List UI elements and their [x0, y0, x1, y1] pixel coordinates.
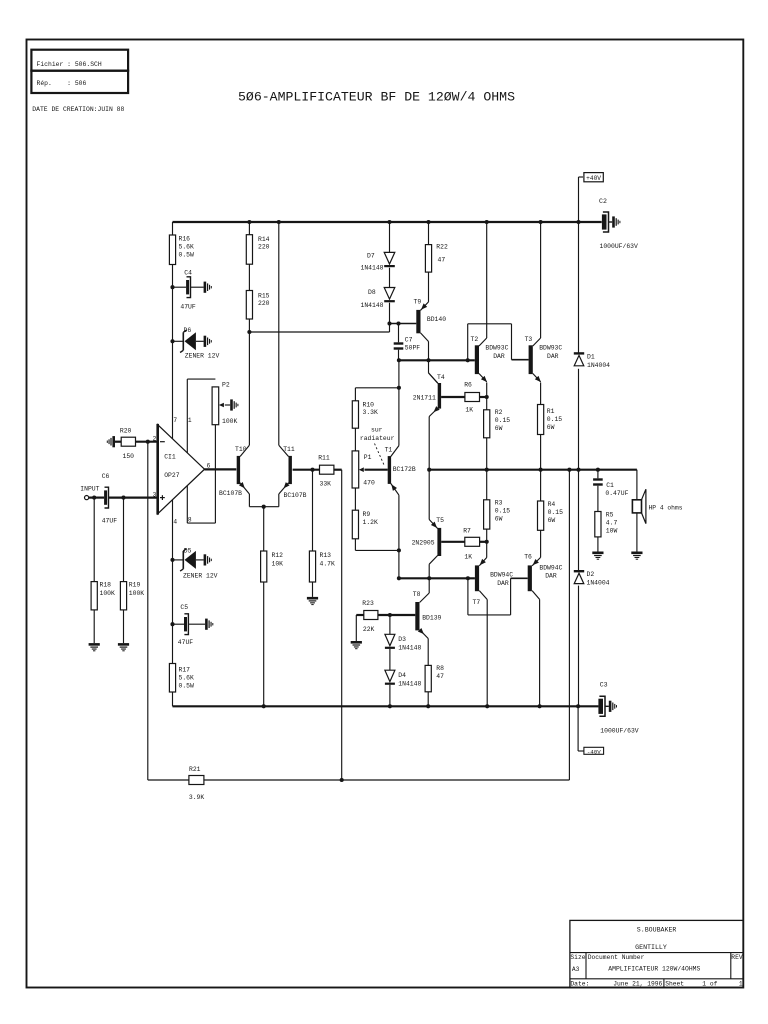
- wire T7 collector to rail: [486, 600, 488, 707]
- svg-text:0.5W: 0.5W: [179, 683, 195, 690]
- resistor R13: [312, 470, 314, 551]
- resistor R7: [465, 537, 480, 546]
- svg-text:50PF: 50PF: [405, 345, 421, 352]
- svg-text:47UF: 47UF: [102, 517, 118, 524]
- svg-text:1000UF/63V: 1000UF/63V: [600, 243, 639, 250]
- svg-text:BDW94C: BDW94C: [490, 572, 513, 579]
- wire P1 wiper to T1 base: [365, 469, 388, 471]
- resistor R10: [352, 401, 358, 428]
- svg-text:1N4148: 1N4148: [361, 302, 384, 309]
- svg-text:5Ø6-AMPLIFICATEUR BF DE 12ØW/4: 5Ø6-AMPLIFICATEUR BF DE 12ØW/4 OHMS: [238, 89, 515, 104]
- svg-text:R13: R13: [320, 552, 332, 559]
- svg-text:BD139: BD139: [422, 614, 441, 621]
- svg-text:R3: R3: [495, 500, 503, 507]
- diode D8: [384, 288, 395, 300]
- capacitor C6: [89, 497, 104, 499]
- zener D6: [170, 339, 174, 343]
- svg-text:T9: T9: [414, 299, 422, 306]
- diode D7: [384, 252, 395, 264]
- svg-text:C7: C7: [405, 337, 413, 344]
- svg-text:R15: R15: [258, 293, 270, 300]
- wire op-amp out to T10 base: [205, 468, 237, 470]
- svg-text:Rép. : 506: Rép. : 506: [37, 80, 87, 87]
- svg-text:0.47UF: 0.47UF: [605, 490, 628, 497]
- svg-text:100K: 100K: [129, 590, 145, 597]
- resistor R2: [484, 410, 490, 438]
- svg-text:10K: 10K: [272, 561, 284, 568]
- svg-text:Fichier : 506.SCH: Fichier : 506.SCH: [37, 61, 102, 68]
- junction dots bottom rail: [262, 704, 266, 708]
- svg-text:6W: 6W: [495, 425, 503, 432]
- svg-text:R5: R5: [606, 512, 614, 519]
- svg-text:7: 7: [173, 417, 177, 424]
- wire T5 collector down: [428, 564, 430, 593]
- svg-text:R21: R21: [189, 766, 201, 773]
- svg-text:INPUT: INPUT: [80, 486, 99, 493]
- svg-text:3.3K: 3.3K: [363, 409, 379, 416]
- svg-text:4: 4: [173, 519, 177, 526]
- wire T6 T7 base jog: [467, 578, 469, 615]
- svg-text:T10: T10: [235, 446, 247, 453]
- wire bias bottom: [354, 539, 356, 551]
- svg-text:AMPLIFICATEUR 120W/4OHMS: AMPLIFICATEUR 120W/4OHMS: [608, 965, 700, 972]
- svg-text:D7: D7: [367, 253, 375, 260]
- resistor R3: [486, 470, 488, 500]
- wire link to D8 node: [249, 331, 389, 333]
- wire T2 T3 base jog: [467, 324, 469, 361]
- svg-text:1N4004: 1N4004: [587, 579, 610, 586]
- wire T11 base to R11: [293, 469, 320, 471]
- svg-text:ZENER 12V: ZENER 12V: [185, 352, 220, 359]
- svg-text:June 21, 1996: June 21, 1996: [613, 980, 662, 987]
- svg-text:100K: 100K: [222, 418, 238, 425]
- transistor T8 BD139: [415, 602, 419, 630]
- svg-text:T2: T2: [471, 336, 479, 343]
- wire T9 collector to T4 collector: [428, 342, 430, 373]
- wire R14 to R15: [248, 264, 250, 291]
- svg-text:T8: T8: [413, 591, 421, 598]
- svg-text:BC107B: BC107B: [219, 490, 242, 497]
- svg-text:T3: T3: [525, 336, 533, 343]
- transistor T10 BC107B: [237, 456, 240, 484]
- svg-text:D5: D5: [184, 547, 192, 554]
- transistor T6 BDW94C: [528, 565, 532, 591]
- svg-text:D4: D4: [398, 672, 406, 679]
- svg-text:C4: C4: [184, 270, 192, 277]
- -40V flag: [578, 750, 584, 752]
- svg-text:CI1: CI1: [164, 454, 176, 461]
- svg-text:22K: 22K: [363, 626, 375, 633]
- zener D5: [170, 558, 174, 562]
- svg-text:33K: 33K: [320, 481, 332, 488]
- svg-text:T11: T11: [283, 446, 295, 453]
- svg-text:1K: 1K: [465, 407, 473, 414]
- transistor T2 BDW93C: [475, 345, 479, 374]
- wire T5 base to R7: [441, 541, 465, 543]
- svg-text:D2: D2: [587, 571, 595, 578]
- svg-text:R2: R2: [495, 409, 503, 416]
- wire T6 collector to rail: [539, 599, 541, 706]
- svg-text:DAR: DAR: [547, 353, 559, 360]
- svg-text:DAR: DAR: [497, 580, 509, 587]
- svg-text:4.7K: 4.7K: [320, 561, 336, 568]
- wire +40V column to D1 and output: [578, 177, 580, 222]
- svg-text:150: 150: [123, 453, 135, 460]
- svg-text:D6: D6: [184, 327, 192, 334]
- wire T7 emitter to R3: [486, 542, 488, 558]
- svg-text:0.15: 0.15: [495, 417, 511, 424]
- wire R15 to T10 collector: [248, 319, 250, 445]
- VAS drive line lower: [399, 577, 475, 579]
- svg-text:S.BOUBAKER: S.BOUBAKER: [637, 927, 677, 934]
- resistor R12: [263, 507, 265, 551]
- svg-text:T5: T5: [436, 517, 444, 524]
- transistor T7 BDW94C: [475, 565, 479, 591]
- svg-text:REV: REV: [731, 954, 743, 961]
- svg-text:47: 47: [438, 257, 446, 264]
- svg-text:Sheet: Sheet: [665, 980, 684, 987]
- potentiometer P1: [352, 451, 359, 488]
- svg-text:0.15: 0.15: [547, 416, 563, 423]
- svg-text:470: 470: [363, 480, 375, 487]
- capacitor C7: [398, 324, 400, 343]
- resistor R1: [538, 405, 544, 435]
- transistor T9 BD140: [416, 310, 420, 333]
- wire T2 emitter to R2: [486, 383, 488, 410]
- title block: [570, 920, 743, 987]
- transistor T3 BDW93C: [529, 345, 533, 374]
- diode D3: [389, 615, 391, 634]
- svg-text:R1: R1: [547, 408, 555, 415]
- wire R11 down to feedback: [341, 470, 343, 780]
- capacitor C1: [597, 470, 599, 479]
- resistor R5: [595, 512, 601, 537]
- op-amp CI1 OP27: [158, 425, 205, 514]
- header box Fichier: [31, 50, 128, 71]
- svg-text:OP27: OP27: [164, 472, 180, 479]
- resistor R14: [247, 220, 251, 224]
- diode D4: [389, 649, 391, 670]
- svg-text:10W: 10W: [606, 528, 618, 535]
- speaker HP 4 ohms: [636, 470, 638, 500]
- svg-text:D1: D1: [587, 354, 595, 361]
- svg-text:0.15: 0.15: [548, 509, 564, 516]
- svg-text:1K: 1K: [464, 553, 472, 560]
- svg-text:C1: C1: [606, 482, 614, 489]
- transistor T4 2N1711: [438, 383, 441, 409]
- svg-text:4.7: 4.7: [606, 520, 618, 527]
- resistor R11: [320, 465, 334, 474]
- header box Rep: [31, 71, 128, 93]
- svg-text:1: 1: [188, 417, 192, 424]
- resistor R8: [427, 639, 429, 666]
- svg-text:BDW94C: BDW94C: [539, 564, 562, 571]
- svg-text:R9: R9: [363, 511, 371, 518]
- wire P1 to R9: [354, 488, 356, 510]
- svg-text:C6: C6: [102, 473, 110, 480]
- emitter join wire: [249, 506, 278, 508]
- svg-text:5.6K: 5.6K: [179, 675, 195, 682]
- wire R22 to T9 emitter: [428, 272, 430, 302]
- svg-text:1: 1: [739, 980, 743, 987]
- svg-text:6W: 6W: [495, 516, 503, 523]
- wire bias top: [354, 388, 356, 401]
- wire R10 to P1: [354, 428, 356, 451]
- svg-text:D8: D8: [368, 289, 376, 296]
- wire T1 collector up: [398, 360, 400, 445]
- svg-text:3.9K: 3.9K: [189, 794, 205, 801]
- svg-text:1.2K: 1.2K: [363, 519, 379, 526]
- svg-text:6W: 6W: [547, 424, 555, 431]
- svg-text:0.5W: 0.5W: [179, 252, 195, 259]
- svg-text:5.6K: 5.6K: [179, 244, 195, 251]
- wire T1 emitter down: [398, 495, 400, 578]
- svg-text:100K: 100K: [100, 590, 116, 597]
- svg-text:R16: R16: [179, 236, 191, 243]
- svg-text:R8: R8: [436, 665, 444, 672]
- svg-text:R22: R22: [436, 244, 448, 251]
- svg-text:47UF: 47UF: [180, 304, 196, 311]
- +40V flag: [579, 176, 584, 178]
- transistor T1 BC172B: [388, 456, 391, 484]
- wire R16 to C4 node: [172, 265, 174, 342]
- svg-text:1N4148: 1N4148: [361, 264, 384, 271]
- svg-text:Date:: Date:: [570, 980, 589, 987]
- wire T2 collector to rail: [485, 220, 489, 224]
- svg-text:R10: R10: [363, 402, 375, 409]
- svg-text:T1: T1: [385, 447, 393, 454]
- resistor R4: [540, 470, 542, 501]
- svg-text:R11: R11: [318, 454, 330, 461]
- svg-text:A3: A3: [572, 966, 580, 973]
- svg-text:P2: P2: [222, 382, 230, 389]
- wire T3 emitter to R1: [540, 383, 542, 405]
- svg-text:BD140: BD140: [427, 316, 446, 323]
- feedback wire to output: [568, 470, 570, 780]
- svg-text:T7: T7: [473, 599, 481, 606]
- svg-text:+40V: +40V: [586, 175, 601, 182]
- svg-text:BDW93C: BDW93C: [485, 345, 508, 352]
- svg-text:T4: T4: [437, 374, 445, 381]
- wire D4 to rail: [389, 685, 391, 707]
- svg-text:BDW93C: BDW93C: [539, 345, 562, 352]
- wire T11 collector to rail: [277, 220, 281, 224]
- svg-text:DAR: DAR: [545, 573, 557, 580]
- svg-text:2N2905: 2N2905: [412, 539, 435, 546]
- svg-text:DAR: DAR: [493, 353, 505, 360]
- svg-text:Size: Size: [570, 954, 585, 961]
- wire T3 collector to rail: [539, 220, 543, 224]
- svg-text:0.15: 0.15: [495, 508, 511, 515]
- diode D1: [574, 352, 584, 354]
- svg-text:R23: R23: [362, 600, 374, 607]
- resistor R22: [426, 220, 430, 224]
- svg-text:R12: R12: [272, 552, 284, 559]
- svg-text:47UF: 47UF: [178, 639, 194, 646]
- svg-text:HP 4 ohms: HP 4 ohms: [649, 505, 683, 512]
- resistor R17: [172, 624, 174, 664]
- resistor R16: [172, 222, 174, 235]
- diode D2: [574, 570, 584, 572]
- capacitor C5: [172, 560, 174, 624]
- svg-text:220: 220: [258, 300, 270, 307]
- wire pin1 to P2 top: [186, 379, 188, 453]
- wire to op-amp pin 7: [172, 341, 174, 439]
- svg-text:8: 8: [188, 517, 192, 524]
- svg-text:-40V: -40V: [587, 749, 601, 756]
- svg-text:R7: R7: [463, 528, 471, 535]
- capacitor C4: [170, 285, 174, 289]
- wire T4 base to R6: [441, 396, 465, 398]
- svg-text:C3: C3: [600, 682, 608, 689]
- output line: [429, 469, 637, 471]
- svg-text:sur: sur: [371, 427, 383, 434]
- svg-text:DATE DE CREATION:JUIN 88: DATE DE CREATION:JUIN 88: [32, 106, 124, 113]
- svg-text:6W: 6W: [548, 517, 556, 524]
- svg-text:1N4004: 1N4004: [587, 362, 610, 369]
- svg-text:220: 220: [258, 244, 270, 251]
- svg-text:C5: C5: [180, 604, 188, 611]
- resistor R20: [112, 436, 115, 447]
- capacitor C3: [598, 699, 603, 714]
- svg-text:R14: R14: [258, 236, 270, 243]
- svg-text:T6: T6: [524, 553, 532, 560]
- wire T9 base: [390, 323, 417, 325]
- resistor R18: [93, 498, 95, 582]
- wire D8 to link: [389, 303, 391, 332]
- svg-text:ZENER 12V: ZENER 12V: [183, 572, 218, 579]
- VAS drive line upper: [399, 359, 475, 361]
- svg-text:radiateur: radiateur: [360, 435, 395, 442]
- transistor T11 BC107B: [289, 456, 292, 484]
- wire op-amp pin4 to D5 node: [172, 500, 174, 560]
- svg-text:BC172B: BC172B: [393, 466, 416, 473]
- svg-text:1N4148: 1N4148: [398, 645, 421, 652]
- wire rail to D7: [387, 220, 391, 224]
- svg-text:Document Number: Document Number: [588, 954, 645, 961]
- wire pin8 to P2 bottom: [186, 486, 188, 523]
- -40V rail wire: [173, 705, 599, 707]
- svg-text:6: 6: [207, 462, 211, 469]
- wire R17 to -rail: [172, 692, 174, 706]
- resistor R21: [148, 779, 189, 781]
- feedback wire from pin2 down: [147, 442, 149, 780]
- resistor R19: [123, 498, 125, 582]
- resistor R23: [351, 641, 362, 644]
- wire output to D2 to -40V rail: [578, 470, 580, 570]
- wire D7 to D8: [389, 268, 391, 288]
- svg-text:47: 47: [436, 673, 444, 680]
- +40V rail wire: [173, 221, 602, 223]
- svg-text:R20: R20: [120, 428, 132, 435]
- svg-text:R17: R17: [179, 667, 191, 674]
- svg-text:BC107B: BC107B: [284, 492, 307, 499]
- resistor R9: [352, 510, 358, 539]
- resistor R6: [465, 393, 480, 402]
- svg-text:R19: R19: [129, 582, 141, 589]
- potentiometer P2: [212, 387, 219, 425]
- svg-text:P1: P1: [364, 454, 372, 461]
- svg-text:R6: R6: [464, 381, 472, 388]
- svg-text:C2: C2: [599, 198, 607, 205]
- svg-text:R18: R18: [100, 582, 112, 589]
- capacitor C2: [602, 214, 607, 229]
- wire T4 emitter to output: [428, 417, 430, 520]
- svg-text:1 of: 1 of: [702, 980, 717, 987]
- resistor R15: [246, 291, 252, 320]
- svg-text:GENTILLY: GENTILLY: [635, 944, 667, 951]
- svg-text:R4: R4: [548, 501, 556, 508]
- svg-text:1N4148: 1N4148: [398, 681, 421, 688]
- svg-text:2N1711: 2N1711: [413, 394, 436, 401]
- svg-text:1000UF/63V: 1000UF/63V: [600, 727, 639, 734]
- svg-text:D3: D3: [398, 636, 406, 643]
- transistor T5 2N2905: [437, 528, 441, 556]
